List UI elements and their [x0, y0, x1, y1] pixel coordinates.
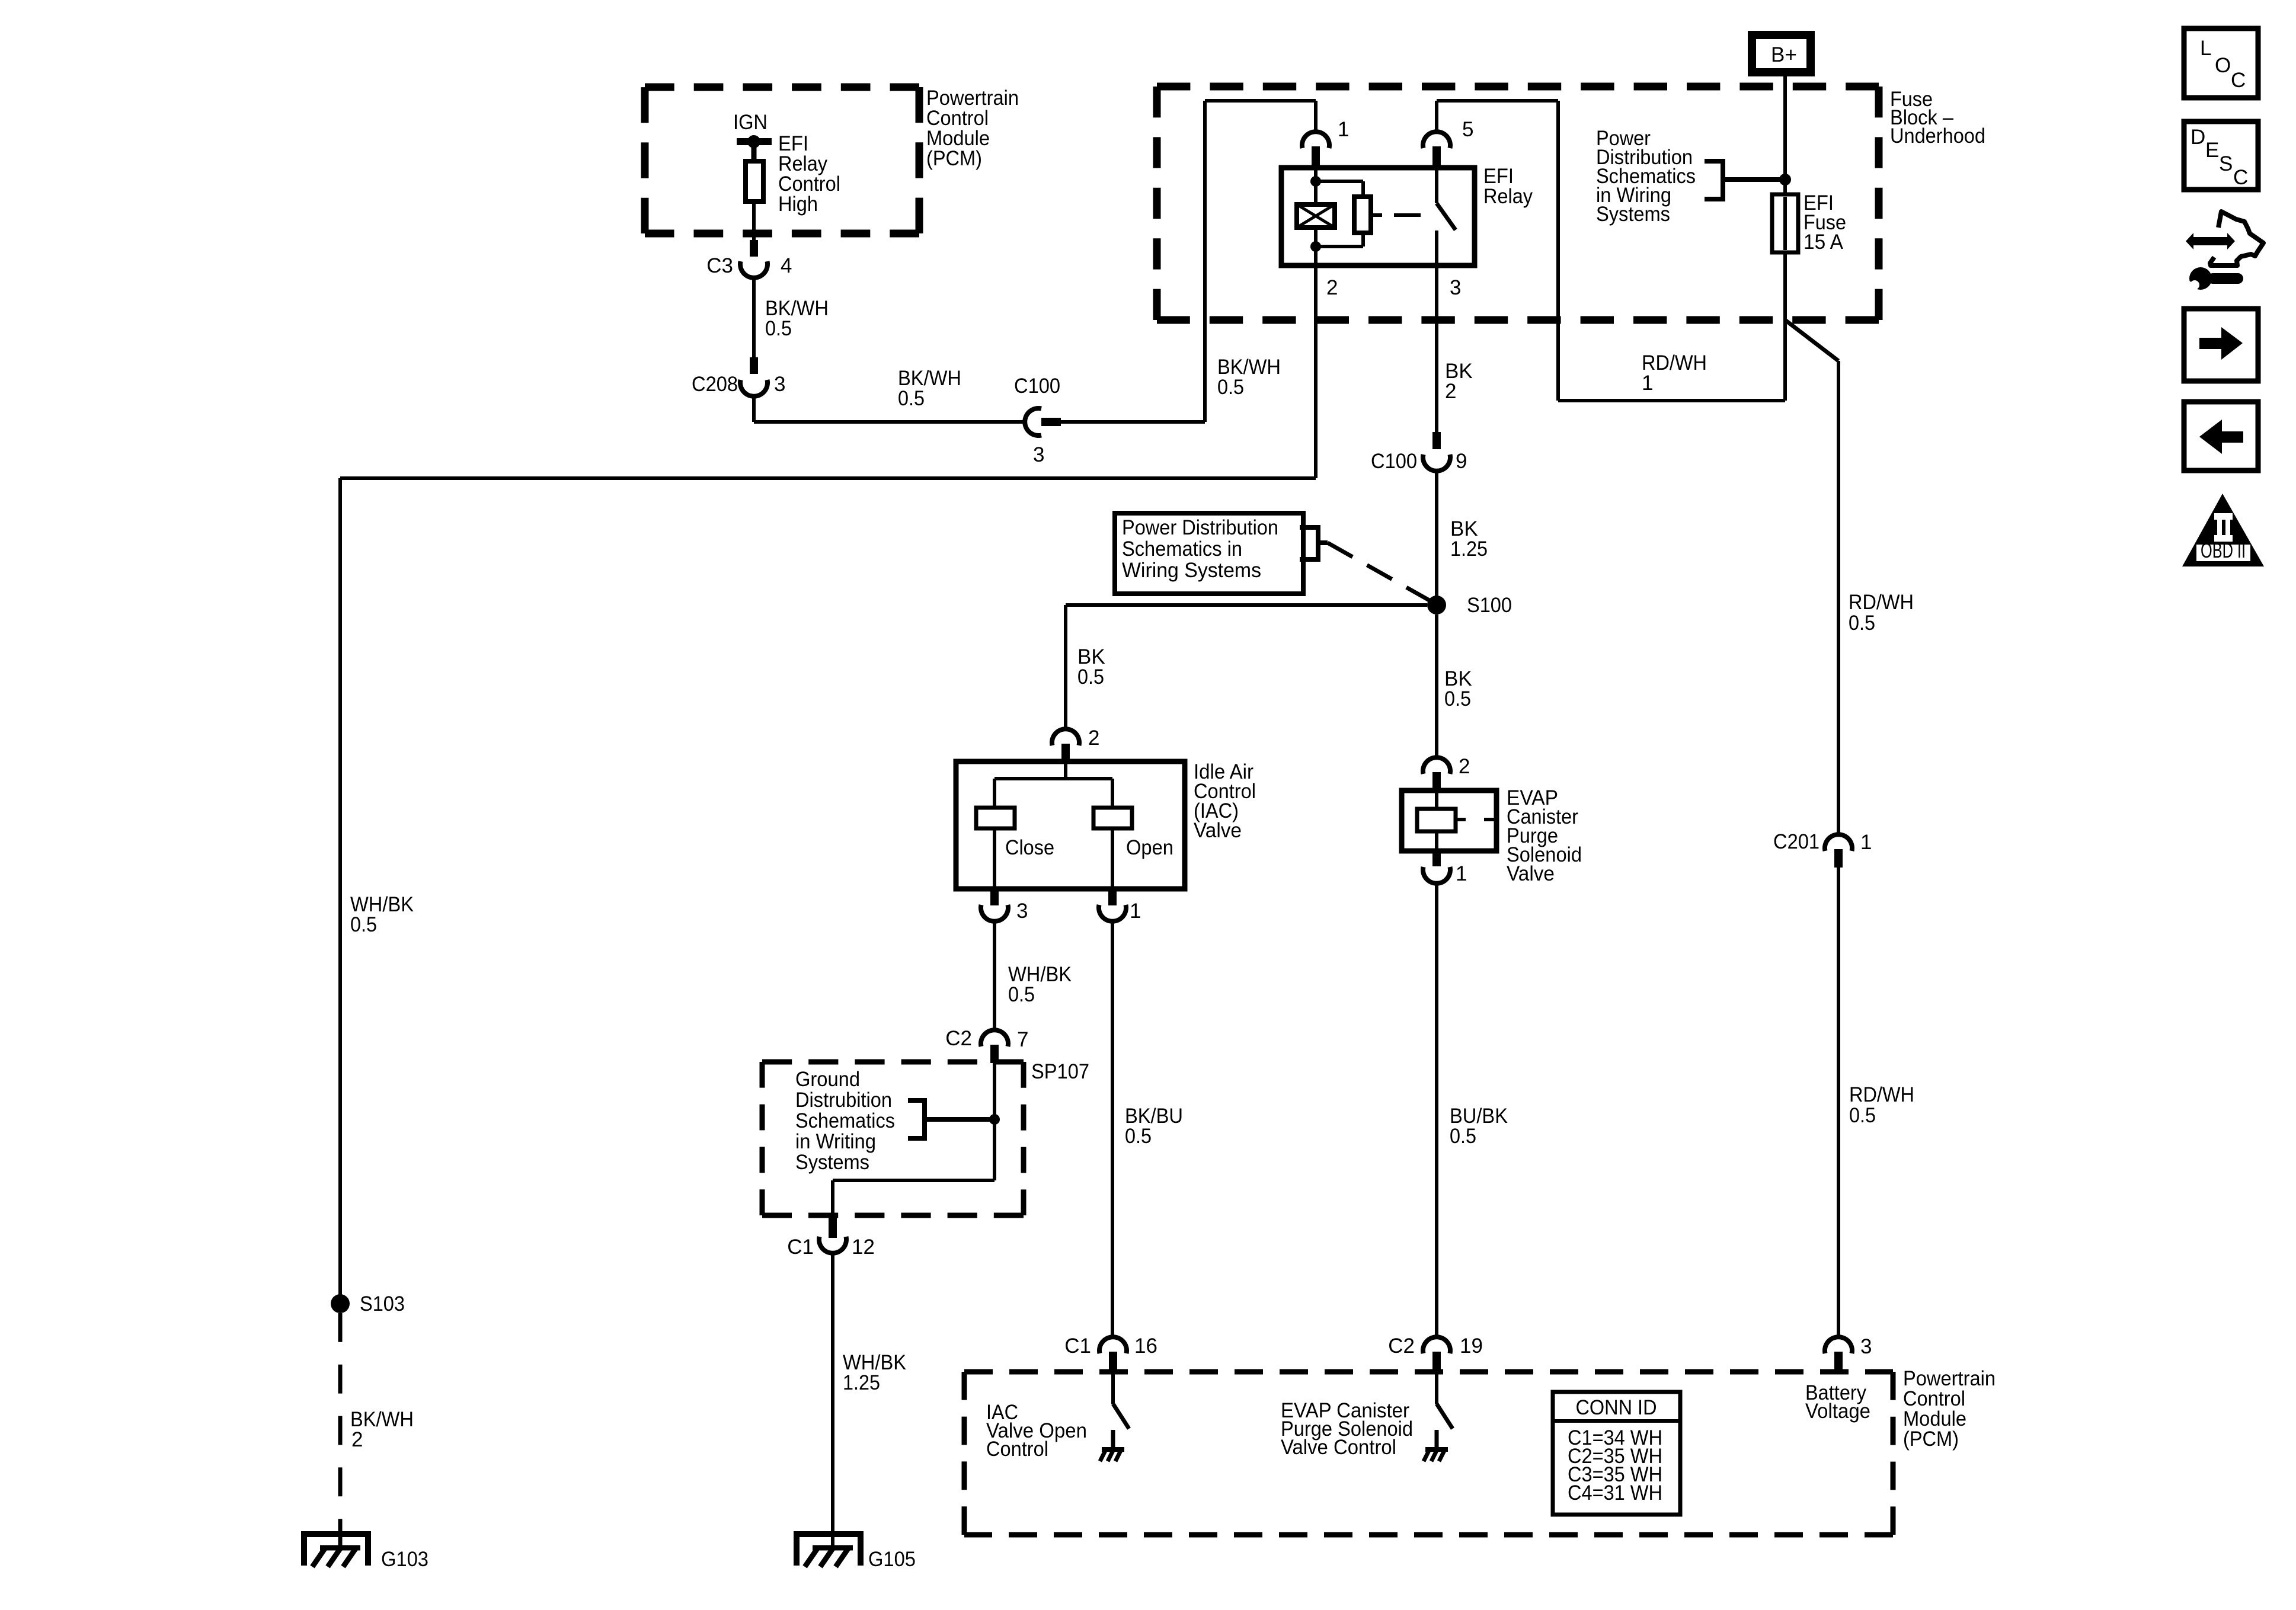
wire relay pin 2 down, BK/WH 0.5 [1314, 265, 1318, 478]
svg-text:3: 3 [1016, 900, 1028, 923]
svg-text:S100: S100 [1467, 594, 1512, 617]
svg-text:4: 4 [781, 254, 792, 277]
splice SP107 wire [993, 1063, 996, 1180]
svg-text:Valve: Valve [1194, 819, 1242, 842]
double arrow [2186, 233, 2235, 249]
connector C2 pin 19 [1423, 1337, 1450, 1353]
svg-text:0.5: 0.5 [898, 387, 925, 410]
svg-text:Distrubition: Distrubition [795, 1089, 892, 1112]
connector C1 pin 12 [829, 1217, 837, 1238]
svg-text:Ground: Ground [795, 1068, 860, 1091]
CONN ID table [1553, 1392, 1680, 1515]
svg-text:0.5: 0.5 [1849, 612, 1875, 635]
connector EVAP pin 2 [1423, 757, 1450, 774]
bracket (fuse block reference) [1705, 161, 1723, 199]
svg-text:RD/WH: RD/WH [1849, 1083, 1914, 1106]
IAC open coil [1093, 808, 1132, 828]
connector C1 pin 16 [1099, 1337, 1127, 1353]
svg-text:2: 2 [1326, 276, 1338, 299]
svg-text:Schematics in: Schematics in [1122, 537, 1242, 561]
svg-text:(PCM): (PCM) [1903, 1427, 1959, 1451]
svg-text:7: 7 [1017, 1028, 1028, 1051]
svg-text:3: 3 [1033, 443, 1044, 466]
svg-text:C2: C2 [1388, 1334, 1415, 1358]
sidebar icon OBD II triangle [2182, 494, 2264, 566]
connector relay pin 5 [1435, 101, 1438, 132]
wire C201 to PCM pin 3, RD/WH 0.5 [1837, 868, 1840, 1337]
splice S100 [1427, 596, 1446, 614]
svg-text:B+: B+ [1771, 43, 1797, 66]
svg-text:IGN: IGN [733, 111, 768, 134]
connector C208 pin 3 [750, 357, 758, 374]
svg-text:0.5: 0.5 [1125, 1125, 1152, 1148]
svg-text:0.5: 0.5 [1008, 983, 1035, 1006]
left riser wire WH/BK 0.5 [338, 478, 342, 1304]
bracket (ground distribution) [908, 1100, 925, 1138]
svg-text:SP107: SP107 [1031, 1060, 1089, 1083]
B+ power feed box [1752, 35, 1811, 72]
wire C100-3 right then up to relay pin 1 loop [1061, 420, 1205, 424]
svg-text:Underhood: Underhood [1890, 124, 1985, 148]
svg-text:1: 1 [1860, 831, 1872, 854]
connector C2 pin 7 [981, 1030, 1008, 1046]
sidebar icon diagnostic wrench [2210, 212, 2263, 265]
svg-text:RD/WH: RD/WH [1849, 591, 1914, 614]
svg-text:S: S [2219, 152, 2233, 175]
svg-text:0.5: 0.5 [1077, 665, 1104, 689]
IAC internal bus [1064, 761, 1067, 779]
svg-text:0.5: 0.5 [350, 913, 377, 936]
IAC coil wires to pins [993, 828, 996, 889]
svg-text:Schematics: Schematics [795, 1109, 895, 1132]
svg-text:Control: Control [986, 1438, 1048, 1461]
resistor EFI Relay Control High driver [746, 161, 763, 201]
svg-text:3: 3 [1450, 276, 1461, 299]
connector IAC pin 2 [1052, 729, 1079, 745]
svg-text:Valve: Valve [1507, 862, 1555, 885]
svg-text:Voltage: Voltage [1805, 1400, 1870, 1423]
wire B+ down to fuse [1783, 72, 1787, 194]
Power Distribution Schematics box (upper) [1115, 513, 1303, 594]
ground G105 [797, 1534, 861, 1566]
splice S103 [331, 1294, 350, 1313]
wire EVAP-1 down BU/BK 0.5 [1435, 884, 1438, 1337]
wire S100 down BK 0.5 [1435, 614, 1438, 757]
sidebar icon DESC [2184, 121, 2258, 190]
svg-text:0.5: 0.5 [1849, 1104, 1876, 1127]
wire IAC-3 down WH/BK 0.5 [993, 921, 996, 1030]
svg-text:Close: Close [1005, 836, 1054, 859]
connector C3 pin 4 [750, 240, 758, 257]
svg-text:Relay: Relay [1483, 185, 1533, 208]
svg-text:E: E [2205, 139, 2219, 162]
svg-text:C3: C3 [706, 254, 733, 277]
wire IGN to resistor [752, 142, 757, 161]
svg-text:0.5: 0.5 [1217, 376, 1244, 399]
svg-text:1.25: 1.25 [1450, 537, 1488, 561]
wire relay pin5 feed loop RD/WH 1 [1556, 101, 1560, 401]
svg-text:C: C [2233, 166, 2248, 189]
connector C100 pin 9 [1432, 432, 1441, 449]
connector IAC pin 1 [1108, 889, 1117, 905]
svg-text:G103: G103 [381, 1548, 428, 1571]
IAC close coil [976, 808, 1015, 828]
svg-text:1: 1 [1130, 900, 1141, 923]
svg-text:0.5: 0.5 [1450, 1125, 1476, 1148]
svg-text:L: L [2200, 37, 2211, 60]
svg-text:C208: C208 [692, 373, 738, 396]
wire S100 left branch BK 0.5 [1066, 603, 1427, 607]
sidebar icon back arrow [2184, 402, 2258, 470]
connector C100 pin 3 (inline) [1025, 408, 1041, 436]
svg-text:2: 2 [1445, 380, 1456, 403]
svg-text:in Writing: in Writing [795, 1130, 876, 1153]
svg-text:3: 3 [774, 373, 785, 396]
svg-text:Power Distribution: Power Distribution [1122, 516, 1278, 539]
svg-text:3: 3 [1860, 1335, 1872, 1358]
svg-text:2: 2 [351, 1428, 363, 1451]
connector IAC pin 3 [990, 889, 999, 905]
svg-text:1: 1 [1456, 862, 1467, 885]
ground (EVAP driver) [1435, 1430, 1439, 1449]
connector relay pin 1 [1314, 101, 1318, 132]
EVAP solenoid coil [1417, 809, 1456, 831]
svg-text:2: 2 [1088, 726, 1099, 750]
wrench [2180, 267, 2243, 293]
svg-text:Wiring Systems: Wiring Systems [1122, 559, 1261, 582]
IAC valve box [956, 761, 1185, 889]
wire C100-9 to S100, BK 1.25 [1435, 471, 1438, 605]
sidebar icon LOC [2184, 28, 2258, 98]
svg-text:15 A: 15 A [1803, 231, 1844, 254]
EFI Fuse 15 A [1772, 194, 1798, 252]
EVAP canister purge solenoid valve box [1402, 790, 1496, 851]
wire resistor to C3 [752, 203, 756, 240]
relay switch [1435, 168, 1438, 203]
svg-text:CONN ID: CONN ID [1576, 1396, 1657, 1419]
svg-text:C201: C201 [1773, 830, 1819, 853]
dashed reference line to S100 [1328, 543, 1431, 601]
svg-text:G105: G105 [868, 1548, 916, 1571]
PCM (top) dashed box [645, 84, 919, 91]
svg-text:C100: C100 [1371, 450, 1417, 473]
EFI relay box [1281, 168, 1475, 265]
svg-text:Systems: Systems [1596, 203, 1670, 226]
svg-text:O: O [2215, 54, 2231, 77]
long wire pin2 left to left riser [340, 476, 1316, 480]
relay actuation dashed link [1371, 213, 1382, 217]
svg-text:1: 1 [1642, 372, 1653, 395]
wire RD/WH 0.5 leaving fuse block [1785, 320, 1838, 361]
svg-text:16: 16 [1134, 1334, 1157, 1358]
wire C3 to C208, BK/WH 0.5 [752, 278, 756, 357]
relay internal resistor (parallel) [1316, 180, 1363, 183]
svg-text:OBD II: OBD II [2201, 539, 2246, 562]
svg-text:0.5: 0.5 [1444, 687, 1471, 710]
wire fuse down [1783, 252, 1787, 401]
ground (IAC driver) [1111, 1430, 1115, 1449]
wire IAC-1 down BK/BU 0.5 [1111, 921, 1114, 1337]
svg-text:S103: S103 [360, 1292, 405, 1315]
wire C208 down and right to C100, BK/WH 0.5 [752, 396, 756, 422]
wire C1-12 down WH/BK 1.25 to G105 [831, 1253, 834, 1548]
connector EVAP pin 1 [1432, 851, 1441, 866]
PCM (bottom) dashed box [964, 1369, 1893, 1375]
connector PCM pin 3 (battery voltage) [1825, 1337, 1852, 1353]
connector C201 pin 1 [1825, 834, 1852, 851]
IAC valve open control switch [1111, 1372, 1115, 1404]
svg-text:9: 9 [1456, 450, 1467, 473]
svg-text:C1: C1 [787, 1235, 814, 1259]
svg-text:1.25: 1.25 [843, 1371, 880, 1394]
Fuse Block - Underhood dashed box [1157, 83, 1879, 91]
svg-text:Systems: Systems [795, 1151, 869, 1174]
svg-text:C: C [2231, 69, 2246, 92]
svg-text:(PCM): (PCM) [926, 147, 982, 170]
svg-text:C1: C1 [1064, 1334, 1091, 1358]
svg-text:C4=31 WH: C4=31 WH [1568, 1481, 1662, 1505]
EVAP control switch [1435, 1372, 1438, 1404]
wire relay pin 3 down, BK 2 [1435, 265, 1438, 432]
svg-text:2: 2 [1459, 755, 1470, 778]
sidebar icon forward arrow [2184, 309, 2258, 381]
svg-text:Valve Control: Valve Control [1281, 1436, 1396, 1459]
svg-text:0.5: 0.5 [765, 317, 792, 340]
svg-text:19: 19 [1460, 1334, 1483, 1358]
svg-text:D: D [2191, 126, 2205, 149]
bracket to dashed reference [1300, 527, 1318, 559]
svg-text:C2: C2 [945, 1027, 972, 1050]
dashed wire BK/WH 2 to G103 [338, 1313, 343, 1548]
svg-text:Open: Open [1126, 836, 1173, 859]
svg-text:High: High [778, 193, 818, 216]
svg-text:5: 5 [1462, 118, 1473, 141]
svg-text:C100: C100 [1014, 375, 1060, 398]
relay coil with X [1314, 168, 1318, 181]
ground G103 [304, 1534, 368, 1566]
svg-text:12: 12 [852, 1235, 875, 1259]
svg-text:1: 1 [1338, 118, 1349, 141]
Ground Distribution dashed box [762, 1060, 1024, 1065]
